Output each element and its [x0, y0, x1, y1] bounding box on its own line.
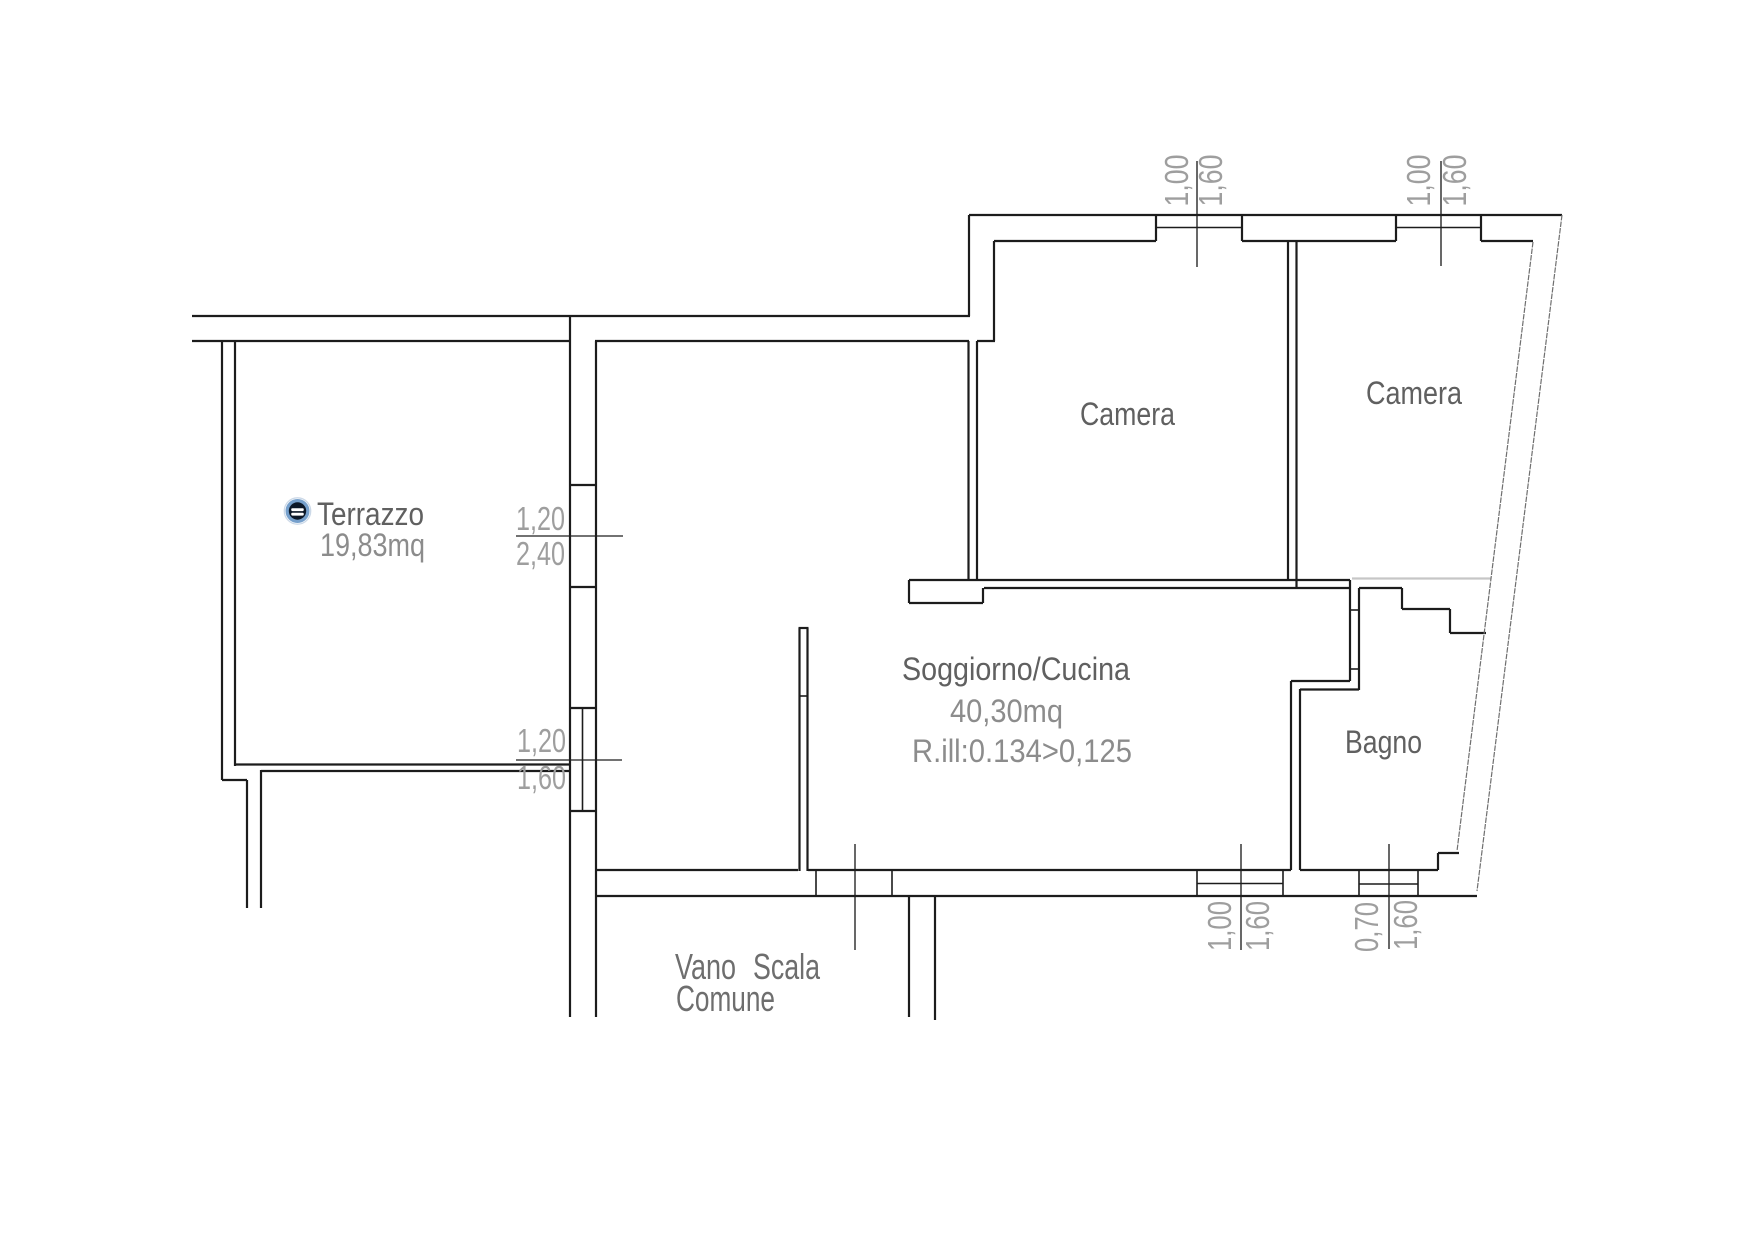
svg-text:1,60: 1,60	[1239, 901, 1276, 951]
top wall inner horizontal segment a	[994, 240, 1156, 242]
bagno bottom-right step horizontal	[1438, 852, 1459, 854]
soggiorno partition seam tick	[799, 695, 808, 697]
svg-text:1,20: 1,20	[517, 722, 566, 759]
inner slanted boundary line	[1457, 242, 1533, 851]
dimension line entrance door	[854, 844, 856, 950]
terrace door opening bottom tick	[570, 586, 596, 588]
top wall outer horizontal	[969, 214, 1562, 216]
top wall inner horizontal segment c	[1481, 240, 1533, 242]
bottom wall top line segment b	[808, 869, 1291, 871]
central vertical wall left line	[569, 316, 571, 1017]
svg-text:Camera: Camera	[1366, 375, 1462, 411]
soggiorno window glass line	[1197, 883, 1283, 885]
camera2 window glass line	[1396, 227, 1481, 229]
wall top-left inner horizontal right of terrace wall	[595, 340, 969, 342]
bagno top step vertical 2	[1449, 609, 1451, 633]
soggiorno partition stub left line	[798, 628, 800, 871]
camera1 window glass line	[1156, 227, 1242, 229]
top wall inner jog at corner	[977, 340, 995, 342]
bagno step horizontal outer	[1291, 680, 1350, 682]
bagno west wall upper left line	[1349, 580, 1351, 681]
bottom wall bottom line	[596, 895, 1477, 897]
bottom wall top line segment c	[1300, 869, 1438, 871]
wall block left end	[908, 580, 910, 603]
vano scala right wall right line	[934, 896, 936, 1020]
camera2 bottom gray line	[1352, 577, 1491, 579]
bagno bottom-right step vertical	[1437, 853, 1439, 870]
bagno step horizontal inner	[1300, 688, 1359, 690]
camera partition wall right line	[1295, 241, 1297, 588]
camera1 bottom wall top line	[909, 579, 1350, 581]
top wall corner vertical inner	[993, 241, 995, 341]
terrace window bottom tick	[570, 810, 596, 812]
svg-text:1,60: 1,60	[1436, 155, 1473, 207]
bagno top wall inner line	[1359, 587, 1402, 589]
svg-text:1,60: 1,60	[1192, 155, 1229, 207]
dimension line soggiorno window	[1240, 844, 1242, 950]
svg-text:0,70: 0,70	[1348, 902, 1385, 952]
svg-text:1,00: 1,00	[1201, 901, 1238, 951]
wall block below camera1 bottom line	[909, 602, 983, 604]
entrance door jamb right	[891, 870, 893, 896]
outer slanted boundary line	[1477, 215, 1562, 891]
dimension line camera1 window	[1196, 161, 1198, 267]
dimension line bagno window	[1388, 844, 1390, 949]
terrace bottom-left jog	[222, 779, 247, 781]
wall top-left inner horizontal left of terrace wall	[192, 340, 569, 342]
camera2 window left jamb	[1395, 215, 1397, 241]
central vertical wall right line	[595, 341, 597, 1017]
dimension line terrace door	[516, 535, 623, 537]
camera2 window right jamb	[1480, 215, 1482, 241]
svg-text:40,30mq: 40,30mq	[950, 693, 1063, 729]
svg-text:Bagno: Bagno	[1345, 724, 1422, 760]
soggiorno partition stub top cap	[799, 627, 809, 629]
soggiorno window jamb left	[1196, 870, 1198, 896]
bagno window jamb left	[1358, 870, 1360, 896]
bagno west lower wall outer line	[1290, 681, 1292, 870]
soggiorno partition stub right line	[806, 628, 808, 871]
bagno top step horizontal 2	[1450, 632, 1486, 634]
bagno window jamb right	[1417, 870, 1419, 896]
bagno window glass line	[1359, 883, 1418, 885]
camera1 window left jamb	[1155, 215, 1157, 241]
bagno west lower wall inner line	[1299, 689, 1301, 870]
terrace door opening top tick	[570, 484, 596, 486]
svg-text:1,20: 1,20	[516, 500, 565, 537]
wall top-left outer horizontal	[192, 315, 970, 317]
dimension line terrace window	[516, 759, 622, 761]
dimension line camera2 window	[1440, 161, 1442, 266]
bagno west wall upper right line	[1358, 588, 1360, 690]
map marker icon	[284, 498, 310, 524]
svg-text:Camera: Camera	[1080, 396, 1175, 432]
partition soggiorno/camera1 right line	[976, 341, 978, 580]
entrance door jamb left	[815, 870, 817, 896]
terrace bottom inner line	[235, 763, 570, 765]
svg-text:R.ill:0.134>0,125: R.ill:0.134>0,125	[912, 733, 1132, 769]
camera1 window right jamb	[1241, 215, 1243, 241]
bagno door jamb bottom	[1350, 668, 1359, 670]
svg-text:Comune: Comune	[676, 978, 775, 1019]
terrace left wall outer line	[221, 341, 223, 780]
top wall corner vertical outer	[968, 215, 970, 316]
svg-text:1,00: 1,00	[1158, 155, 1195, 207]
terrace window glass line	[582, 708, 584, 811]
svg-text:Soggiorno/Cucina: Soggiorno/Cucina	[902, 651, 1130, 687]
svg-text:19,83mq: 19,83mq	[320, 527, 425, 563]
wall block right end	[982, 588, 984, 603]
bottom wall top line segment a	[596, 869, 798, 871]
bagno top step horizontal 1	[1402, 608, 1450, 610]
camera1 bottom wall bottom line	[984, 587, 1350, 589]
svg-text:1,60: 1,60	[1387, 900, 1424, 950]
soggiorno window jamb right	[1282, 870, 1284, 896]
svg-text:2,40: 2,40	[516, 535, 565, 572]
terrace window top tick	[570, 707, 596, 709]
terrace left wall inner line	[234, 341, 236, 766]
exterior stub wall right line	[260, 770, 262, 908]
camera partition wall left line	[1287, 241, 1289, 580]
exterior stub wall left line	[246, 780, 248, 908]
top wall inner horizontal segment b	[1242, 240, 1396, 242]
partition soggiorno/camera1 left line	[967, 341, 969, 580]
terrace bottom second line	[261, 770, 570, 772]
bagno top step vertical 1	[1401, 588, 1403, 609]
svg-text:1,00: 1,00	[1400, 155, 1437, 207]
svg-text:1,60: 1,60	[517, 759, 566, 796]
vano scala right wall left line	[908, 896, 910, 1017]
bagno door jamb top	[1350, 609, 1359, 611]
